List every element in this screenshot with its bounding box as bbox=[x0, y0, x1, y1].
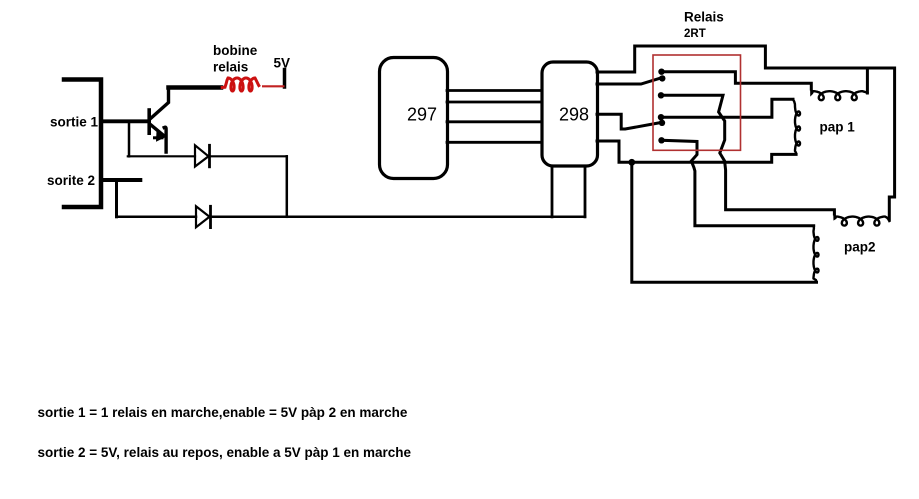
svg-text:bobine: bobine bbox=[213, 43, 258, 58]
svg-text:pap2: pap2 bbox=[844, 239, 876, 254]
svg-text:sorite 2: sorite 2 bbox=[47, 173, 95, 188]
svg-text:pap 1: pap 1 bbox=[820, 119, 856, 134]
svg-text:2RT: 2RT bbox=[684, 28, 706, 40]
svg-text:sortie 2 = 5V, relais au repos: sortie 2 = 5V, relais au repos, enable a… bbox=[38, 445, 412, 460]
svg-text:297: 297 bbox=[407, 105, 437, 125]
svg-text:sortie 1 = 1 relais en marche,: sortie 1 = 1 relais en marche,enable = 5… bbox=[38, 405, 408, 420]
svg-text:Relais: Relais bbox=[684, 9, 724, 24]
svg-text:5V: 5V bbox=[274, 56, 291, 71]
svg-text:relais: relais bbox=[213, 60, 248, 75]
svg-text:298: 298 bbox=[559, 105, 589, 125]
svg-text:sortie 1: sortie 1 bbox=[50, 115, 99, 130]
